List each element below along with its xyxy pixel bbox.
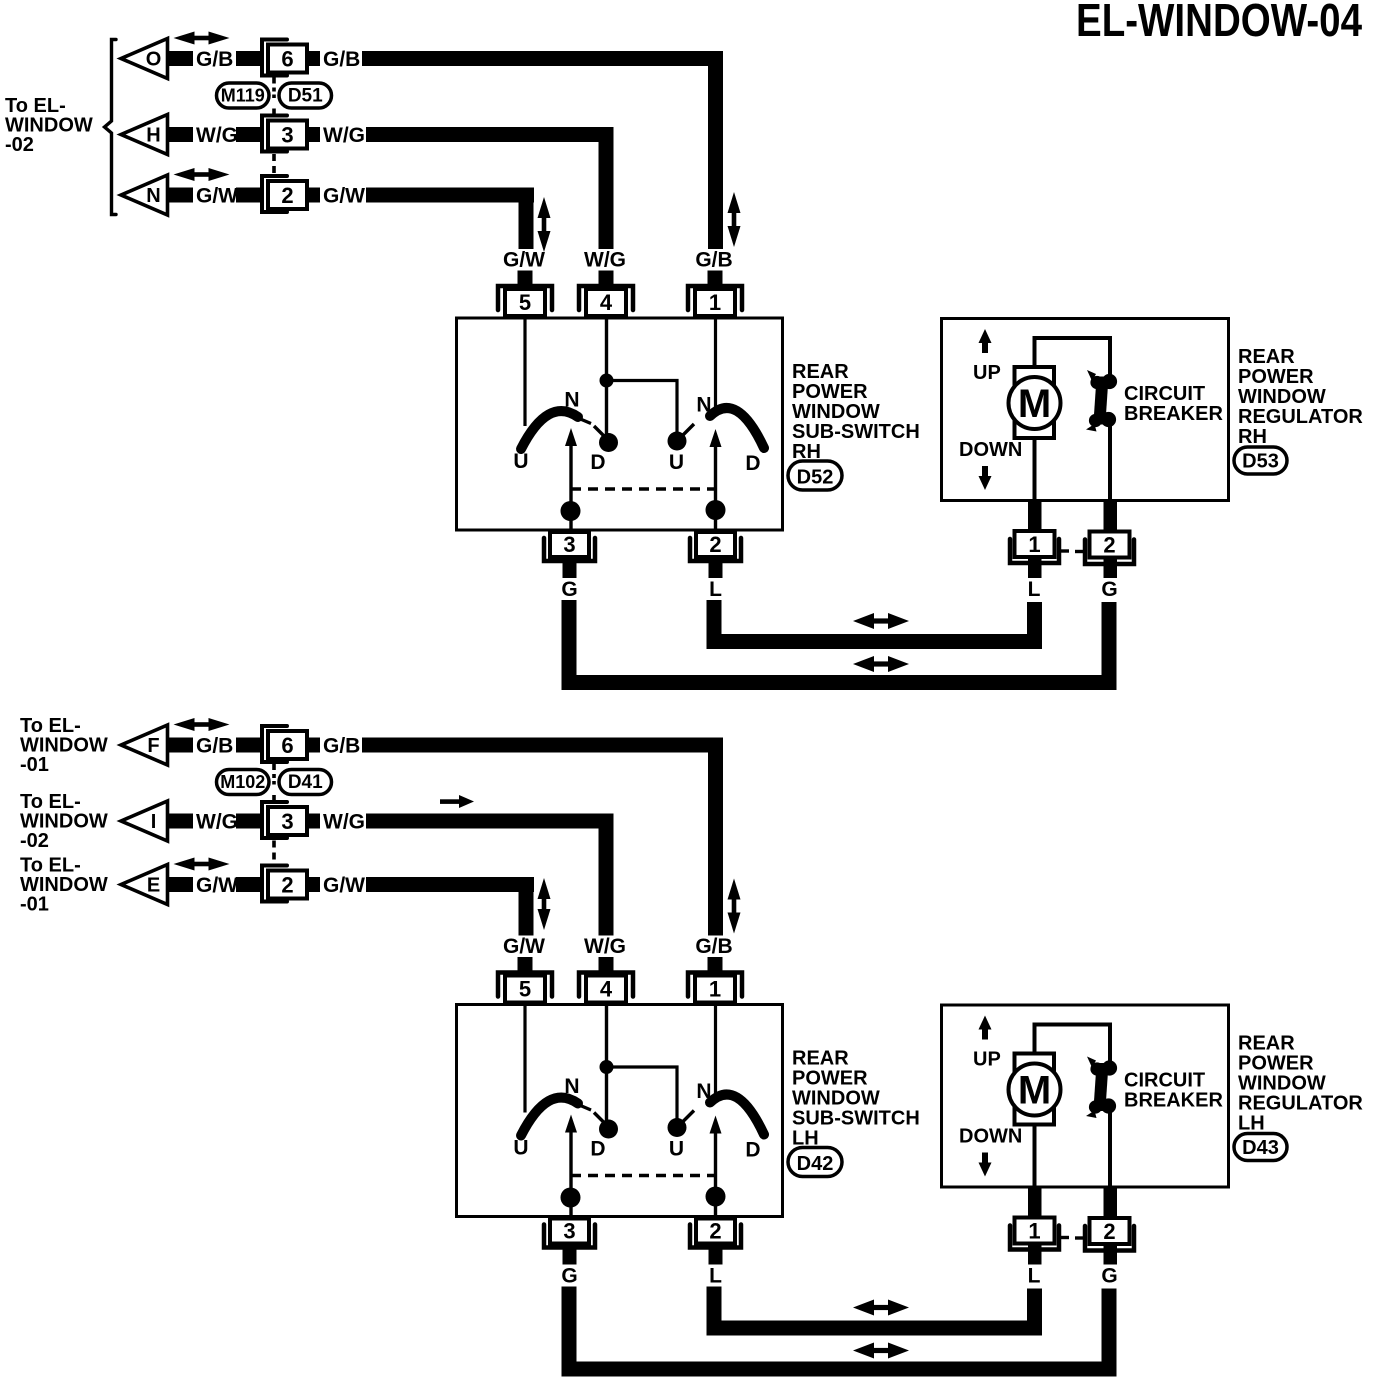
D contact dot left (sub-switch RH) <box>599 433 618 452</box>
svg-text:WINDOW: WINDOW <box>792 1088 880 1110</box>
wire breaker to pin 2 (regulator LH) <box>1108 1112 1112 1187</box>
label To EL-WINDOW-01 at row F <box>20 715 108 776</box>
connector pin box 3, row row H <box>268 121 307 149</box>
svg-text:-01: -01 <box>20 894 49 916</box>
wire from pin 1 (sub-switch LH) <box>714 1005 717 1100</box>
svg-text:POWER: POWER <box>792 381 868 403</box>
svg-text:REGULATOR: REGULATOR <box>1238 406 1363 428</box>
pin box 3 (sub-switch RH) <box>550 532 589 557</box>
svg-text:D51: D51 <box>288 86 323 107</box>
wire stub right of box 6, row row O <box>307 51 320 66</box>
svg-text:G/W: G/W <box>503 935 545 958</box>
wire stub left of G/W label, row row N <box>168 188 194 203</box>
svg-text:D: D <box>745 452 760 475</box>
pin box 2 (regulator RH) <box>1090 532 1130 558</box>
wire stub left of G/B label, row row O <box>168 51 194 66</box>
svg-text:2: 2 <box>709 1219 721 1244</box>
wire from pin 4 (sub-switch RH) <box>605 318 608 434</box>
long G/W wire row N vertical down to pin 5 <box>519 188 534 250</box>
svg-text:E: E <box>147 875 160 897</box>
wire from pin 1 (sub-switch RH) <box>714 318 717 413</box>
svg-text:G/B: G/B <box>196 48 233 71</box>
pin box 1 (regulator RH) <box>1015 531 1055 557</box>
svg-text:U: U <box>513 450 528 473</box>
mechanical link dashed line (sub-switch RH) <box>571 487 716 491</box>
svg-text:D: D <box>590 451 605 474</box>
right switch wiper arc (sub-switch RH) <box>710 408 764 448</box>
svg-text:G/W: G/W <box>196 185 238 208</box>
svg-text:LH: LH <box>1238 1113 1265 1135</box>
svg-text:D: D <box>590 1138 605 1161</box>
label REAR POWER WINDOW REGULATOR RH <box>1238 346 1363 448</box>
pin bracket 3 (sub-switch RH) <box>544 538 595 561</box>
connector triangle I (row2) <box>121 801 168 841</box>
svg-text:N: N <box>146 185 160 207</box>
svg-text:G/W: G/W <box>323 874 365 897</box>
wire motor top to circuit breaker (regulator LH) <box>1035 1025 1111 1062</box>
svg-text:G/W: G/W <box>323 185 365 208</box>
wire stub above pin 1 (LH) <box>708 957 723 972</box>
wire arrow to pin 3 (sub-switch LH) <box>569 1131 572 1218</box>
wire stub above pin 5 (RH) <box>518 271 533 286</box>
pin bracket 2 (regulator RH) <box>1085 540 1134 565</box>
label REAR POWER WINDOW SUB-SWITCH RH <box>792 361 920 463</box>
svg-text:CIRCUIT: CIRCUIT <box>1124 1070 1205 1092</box>
wire stub below pin 2 (sub-switch LH) <box>709 1244 723 1265</box>
DOWN arrow (regulator LH) <box>979 1163 992 1177</box>
pin box 1 (regulator LH) <box>1015 1218 1055 1244</box>
connector triangle E (row3) <box>121 865 168 905</box>
connector id oval M119 <box>217 83 270 108</box>
up arrow of left switch (sub-switch LH) <box>565 1115 577 1133</box>
svg-text:W/G: W/G <box>584 935 626 958</box>
double-headed arrow on L run (LH) <box>853 1300 874 1316</box>
motor M1 circle (regulator RH) <box>1009 377 1061 429</box>
wire stub above pin 1 (regulator LH) <box>1028 1187 1042 1218</box>
double-headed arrow on G run (RH) <box>853 656 874 672</box>
svg-text:RH: RH <box>1238 426 1267 448</box>
wire stub above pin 1 (RH) <box>708 271 723 286</box>
svg-text:G/B: G/B <box>323 48 360 71</box>
svg-text:D: D <box>745 1139 760 1162</box>
double-headed arrow on L run (RH) <box>853 613 874 629</box>
pin bracket 4 (RH) <box>579 286 633 310</box>
wire G bottom horizontal run (LH) <box>562 1362 1117 1377</box>
long W/G wire row I vertical down to pin 4 <box>599 814 614 936</box>
motor M1 circle (regulator LH) <box>1009 1064 1061 1116</box>
label REAR POWER WINDOW SUB-SWITCH LH <box>792 1048 920 1150</box>
svg-text:4: 4 <box>600 290 613 315</box>
pin box 3 (sub-switch LH) <box>550 1219 589 1244</box>
svg-text:D43: D43 <box>1242 1137 1279 1159</box>
svg-text:SUB-SWITCH: SUB-SWITCH <box>792 1108 920 1130</box>
wire L up to regulator pin 1 (RH) <box>1027 602 1042 649</box>
rear power window sub-switch LH box outline <box>457 1005 783 1217</box>
wire motor top to circuit breaker (regulator RH) <box>1035 338 1111 375</box>
svg-text:U: U <box>513 1137 528 1160</box>
double-headed vertical arrow beside G/W wire row E <box>538 878 551 899</box>
svg-text:W/G: W/G <box>323 124 365 147</box>
mating tick left of pin 2 (regulator LH) <box>1075 1236 1085 1239</box>
wire stub right of box 6, row row F <box>307 738 320 753</box>
wire stub right of G/W label, row row E <box>236 877 262 892</box>
rear power window regulator RH box outline <box>942 319 1229 501</box>
svg-text:CIRCUIT: CIRCUIT <box>1124 383 1205 405</box>
wire G bottom horizontal run (RH) <box>562 675 1117 690</box>
svg-text:SUB-SWITCH: SUB-SWITCH <box>792 421 920 443</box>
circuit breaker symbol (regulator RH) <box>1086 370 1117 432</box>
wire stub left of G/W label, row row E <box>168 877 194 892</box>
wire stub left of W/G label, row row I <box>168 814 194 829</box>
connector triangle F (row1) <box>121 725 168 765</box>
svg-text:W/G: W/G <box>196 811 238 834</box>
svg-text:DOWN: DOWN <box>959 439 1022 461</box>
connector pin box 2, row row N <box>268 181 307 209</box>
svg-text:G/B: G/B <box>196 735 233 758</box>
mechanical link dashed line (sub-switch LH) <box>571 1174 716 1178</box>
svg-text:1: 1 <box>1028 532 1040 557</box>
connector pin box 3, row row I <box>268 807 307 835</box>
svg-text:G: G <box>1101 1265 1117 1288</box>
connector bracket at box 3, row row H <box>262 116 287 152</box>
pin box 2 (sub-switch LH) <box>696 1219 735 1244</box>
pin bracket 2 (sub-switch RH) <box>690 538 741 561</box>
branch wire to U contact right (sub-switch LH) <box>607 1067 678 1119</box>
svg-text:G/B: G/B <box>323 735 360 758</box>
junction dot on pin 4 wire (sub-switch LH) <box>600 1060 614 1074</box>
dashed link between M102 and D41 <box>272 774 276 785</box>
svg-text:2: 2 <box>1103 1219 1115 1244</box>
wire stub right of G/W label, row row N <box>236 188 262 203</box>
wire motor to pin 1 (regulator LH) <box>1033 1123 1037 1187</box>
svg-text:POWER: POWER <box>1238 366 1314 388</box>
U contact tail right (sub-switch LH) <box>683 1111 694 1122</box>
svg-text:N: N <box>564 1075 579 1098</box>
svg-text:L: L <box>1028 1265 1041 1288</box>
wire stub below pin 1 (regulator LH) <box>1028 1244 1042 1265</box>
connector bracket at box 3, row row I <box>262 802 287 838</box>
long G/W wire row N horizontal <box>366 188 534 203</box>
label To EL-WINDOW-02 at row I <box>20 791 108 852</box>
svg-text:L: L <box>709 1265 722 1288</box>
pin bracket 4 (LH) <box>579 973 633 997</box>
svg-text:6: 6 <box>281 47 293 72</box>
pin bracket 2 (regulator LH) <box>1085 1226 1134 1251</box>
svg-text:5: 5 <box>519 290 531 315</box>
connector triangle O (row1) <box>121 39 168 79</box>
wire L up to regulator pin 1 (LH) <box>1027 1289 1042 1336</box>
connector pin box 6, row row O <box>268 45 307 73</box>
wire breaker to pin 2 (regulator RH) <box>1108 425 1112 500</box>
long W/G wire row H vertical down to pin 4 <box>599 127 614 249</box>
svg-text:POWER: POWER <box>1238 1053 1314 1075</box>
wire stub above pin 4 (LH) <box>599 957 614 972</box>
svg-text:L: L <box>709 578 722 601</box>
double-headed vertical arrow beside G/B wire row O <box>728 192 741 213</box>
wire arrow to pin 3 (sub-switch RH) <box>569 444 572 531</box>
connector bracket at box 6, row row F <box>262 726 287 762</box>
svg-text:2: 2 <box>709 532 721 557</box>
motor frame rectangle (regulator LH) <box>1015 1054 1055 1125</box>
junction dot left (sub-switch RH) <box>561 501 581 521</box>
svg-text:2: 2 <box>1103 533 1115 558</box>
wire stub left of W/G label, row row H <box>168 127 194 142</box>
label To EL-WINDOW-02 (top left) <box>5 95 93 156</box>
label To EL-WINDOW-01 at row E <box>20 855 108 916</box>
svg-text:1: 1 <box>709 977 721 1002</box>
svg-text:M102: M102 <box>220 772 265 792</box>
svg-text:3: 3 <box>563 1219 575 1244</box>
dashed link from ovals to box 3 <box>272 795 276 802</box>
svg-text:W/G: W/G <box>584 249 626 272</box>
wire from pin 5 to U contact (sub-switch RH) <box>523 318 526 426</box>
svg-text:-02: -02 <box>20 830 49 852</box>
connector id oval D42 <box>788 1148 842 1177</box>
U contact tail right (sub-switch RH) <box>683 424 694 435</box>
branch wire to U contact right (sub-switch RH) <box>607 381 678 433</box>
pin box 5 (LH) <box>505 976 545 1003</box>
dashed link below box 6 to M119/D51 <box>272 77 276 84</box>
svg-text:M: M <box>1018 382 1051 426</box>
wire stub right of G/B label, row row F <box>236 738 262 753</box>
wire stub below pin 2 (regulator LH) <box>1104 1245 1118 1265</box>
wire G from sub-switch pin 3 down (RH) <box>562 600 577 690</box>
label CIRCUIT BREAKER (regulator RH) <box>1124 383 1223 425</box>
DOWN arrow (regulator RH) <box>979 476 992 490</box>
svg-text:U: U <box>669 1138 684 1161</box>
svg-text:5: 5 <box>519 977 531 1002</box>
svg-text:F: F <box>147 735 159 757</box>
svg-text:6: 6 <box>281 733 293 758</box>
wire stub above pin 2 (regulator RH) <box>1104 500 1118 531</box>
connector id oval D52 <box>788 461 842 490</box>
motor frame rectangle (regulator RH) <box>1015 367 1055 438</box>
svg-text:WINDOW: WINDOW <box>792 401 880 423</box>
pin box 4 (LH) <box>586 976 626 1003</box>
wire stub right of box 2, row row E <box>307 877 320 892</box>
long G/W wire row E horizontal <box>366 877 534 892</box>
svg-text:1: 1 <box>1028 1219 1040 1244</box>
label REAR POWER WINDOW REGULATOR LH <box>1238 1033 1363 1135</box>
long G/B wire row O vertical down to pin 1 <box>708 51 723 249</box>
double-headed arrow above connector N <box>174 168 195 181</box>
double-headed arrow above connector E <box>174 858 195 871</box>
wire from pin 5 to U contact (sub-switch LH) <box>523 1005 526 1113</box>
svg-text:REAR: REAR <box>792 361 849 383</box>
long G/B wire row O horizontal <box>362 51 723 66</box>
svg-text:REAR: REAR <box>1238 346 1295 368</box>
pin bracket 1 (regulator RH) <box>1010 539 1059 563</box>
svg-text:BREAKER: BREAKER <box>1124 403 1223 425</box>
svg-text:M: M <box>1018 1069 1051 1113</box>
wire G up to regulator pin 2 (RH) <box>1102 602 1117 690</box>
svg-text:M119: M119 <box>221 86 265 106</box>
left switch wiper arc (sub-switch LH) <box>521 1098 578 1136</box>
pin bracket 5 (RH) <box>498 286 552 310</box>
U contact dot right (sub-switch LH) <box>668 1118 687 1137</box>
svg-text:UP: UP <box>973 1049 1001 1071</box>
svg-text:2: 2 <box>281 873 293 898</box>
wire stub above pin 5 (LH) <box>518 957 533 972</box>
svg-text:3: 3 <box>281 809 293 834</box>
up arrow of right switch (sub-switch LH) <box>710 1116 722 1134</box>
left wiper tail (sub-switch RH) <box>578 418 591 424</box>
svg-text:REGULATOR: REGULATOR <box>1238 1093 1363 1115</box>
svg-text:D41: D41 <box>288 772 323 793</box>
pin box 1 (LH) <box>695 976 735 1003</box>
UP arrow (regulator LH) <box>979 1016 992 1030</box>
svg-text:WINDOW: WINDOW <box>1238 386 1326 408</box>
wire stub above pin 2 (regulator LH) <box>1104 1187 1118 1218</box>
wire stub below pin 2 (sub-switch RH) <box>709 557 723 578</box>
wire stub right of box 3, row row H <box>307 127 320 142</box>
rear power window sub-switch RH box outline <box>457 318 783 530</box>
pin box 5 (RH) <box>505 289 545 316</box>
long G/W wire row E vertical down to pin 5 <box>519 877 534 936</box>
svg-text:L: L <box>1028 578 1041 601</box>
svg-text:POWER: POWER <box>792 1068 868 1090</box>
wire stub above pin 4 (RH) <box>599 271 614 286</box>
long G/B wire row F vertical down to pin 1 <box>708 738 723 936</box>
svg-text:G: G <box>1101 578 1117 601</box>
junction dot right (sub-switch RH) <box>706 500 726 520</box>
long W/G wire row H horizontal <box>366 127 614 142</box>
svg-text:REAR: REAR <box>1238 1033 1295 1055</box>
svg-text:G: G <box>561 1265 577 1288</box>
connector triangle N (row3) <box>121 175 168 215</box>
dashed link between M119 and D51 <box>272 88 276 99</box>
wire stub right of W/G label, row row H <box>236 127 262 142</box>
mating tick left of pin 2 (regulator RH) <box>1075 550 1085 553</box>
junction dot right (sub-switch LH) <box>706 1187 726 1207</box>
dashed link between box 3 and box 2 <box>272 154 276 176</box>
junction dot left (sub-switch LH) <box>561 1188 581 1208</box>
wire L horizontal run (LH) <box>707 1321 1043 1336</box>
svg-text:DOWN: DOWN <box>959 1126 1022 1148</box>
connector id oval D51 <box>279 83 332 108</box>
dashed link from ovals to box 3 <box>272 109 276 116</box>
connector bracket at box 6, row row O <box>262 40 287 76</box>
dashed link between box 3 and box 2 <box>272 841 276 863</box>
right arrow above W/G wire row I <box>459 795 474 808</box>
connector id oval D53 <box>1234 447 1287 474</box>
wire arrow to pin 2 (sub-switch LH) <box>714 1132 717 1218</box>
junction dot on pin 4 wire (sub-switch RH) <box>600 374 614 388</box>
svg-text:D53: D53 <box>1242 451 1279 473</box>
svg-text:D42: D42 <box>797 1153 834 1175</box>
wire stub below pin 3 (sub-switch RH) <box>563 557 577 578</box>
label CIRCUIT BREAKER (regulator LH) <box>1124 1070 1223 1112</box>
U contact dot right (sub-switch RH) <box>668 432 687 451</box>
svg-text:4: 4 <box>600 977 613 1002</box>
svg-text:-02: -02 <box>5 134 34 156</box>
up arrow of left switch (sub-switch RH) <box>565 428 577 446</box>
pin box 1 (RH) <box>695 289 735 316</box>
wire stub above pin 1 (regulator RH) <box>1028 500 1042 531</box>
connector id oval D41 <box>279 770 332 795</box>
wire stub right of box 2, row row N <box>307 188 320 203</box>
long G/B wire row F horizontal <box>362 738 723 753</box>
svg-text:REAR: REAR <box>792 1048 849 1070</box>
svg-text:BREAKER: BREAKER <box>1124 1090 1223 1112</box>
svg-text:I: I <box>151 811 157 833</box>
wire stub below pin 2 (regulator RH) <box>1104 558 1118 578</box>
double-headed vertical arrow beside G/B wire row F <box>728 879 741 900</box>
wire arrow to pin 2 (sub-switch RH) <box>714 445 717 531</box>
brace bracket for To EL-WINDOW-02 <box>105 40 117 215</box>
wire stub below pin 1 (regulator RH) <box>1028 557 1042 578</box>
double-headed arrow on G run (LH) <box>853 1343 874 1359</box>
pin bracket 1 (RH) <box>688 286 742 310</box>
mating tick right of pin 1 (regulator RH) <box>1059 549 1069 552</box>
svg-text:H: H <box>146 125 160 147</box>
D contact dot left (sub-switch LH) <box>599 1120 618 1139</box>
svg-text:U: U <box>669 451 684 474</box>
svg-text:W/G: W/G <box>323 811 365 834</box>
long W/G wire row I horizontal <box>366 814 614 829</box>
wire stub right of G/B label, row row O <box>236 51 262 66</box>
pin bracket 2 (sub-switch LH) <box>690 1225 741 1248</box>
connector pin box 6, row row F <box>268 731 307 759</box>
svg-text:3: 3 <box>281 123 293 148</box>
D contact tail left (sub-switch LH) <box>594 1113 605 1124</box>
left wiper tail (sub-switch LH) <box>578 1105 591 1111</box>
double-headed arrow above connector O <box>174 32 195 45</box>
right switch wiper arc (sub-switch LH) <box>710 1094 764 1134</box>
rear power window regulator LH box outline <box>942 1005 1229 1187</box>
svg-text:1: 1 <box>709 290 721 315</box>
wire L from sub-switch pin 2 down (RH) <box>707 600 722 649</box>
wire L from sub-switch pin 2 down (LH) <box>707 1287 722 1336</box>
up arrow of right switch (sub-switch RH) <box>710 429 722 447</box>
svg-text:WINDOW: WINDOW <box>1238 1073 1326 1095</box>
wire stub right of box 3, row row I <box>307 814 320 829</box>
connector bracket at box 2, row row N <box>262 176 287 212</box>
svg-text:G/W: G/W <box>503 249 545 272</box>
svg-text:O: O <box>146 49 162 71</box>
pin bracket 1 (LH) <box>688 973 742 997</box>
pin box 2 (sub-switch RH) <box>696 532 735 557</box>
connector triangle H (row2) <box>121 115 168 155</box>
connector id oval D43 <box>1234 1134 1287 1161</box>
mating tick right of pin 1 (regulator LH) <box>1059 1236 1069 1239</box>
wire G up to regulator pin 2 (LH) <box>1102 1289 1117 1377</box>
D contact tail left (sub-switch RH) <box>594 426 605 437</box>
pin box 4 (RH) <box>586 289 626 316</box>
wire stub right of W/G label, row row I <box>236 814 262 829</box>
pin box 2 (regulator LH) <box>1090 1218 1130 1244</box>
pin bracket 3 (sub-switch LH) <box>544 1225 595 1248</box>
double-headed vertical arrow beside G/W wire row N <box>538 197 551 218</box>
wire L horizontal run (RH) <box>707 634 1043 649</box>
connector bracket at box 2, row row E <box>262 866 287 902</box>
pin bracket 5 (LH) <box>498 973 552 997</box>
svg-text:EL-WINDOW-04: EL-WINDOW-04 <box>1076 0 1362 46</box>
dashed link below box 6 to M102/D41 <box>272 764 276 771</box>
svg-text:D52: D52 <box>797 467 834 489</box>
svg-text:3: 3 <box>563 532 575 557</box>
connector id oval M102 <box>217 770 270 795</box>
svg-text:G: G <box>561 578 577 601</box>
wire stub left of G/B label, row row F <box>168 738 194 753</box>
svg-text:W/G: W/G <box>196 124 238 147</box>
wire from pin 4 (sub-switch LH) <box>605 1005 608 1121</box>
double-headed arrow above connector F <box>174 718 195 731</box>
svg-text:2: 2 <box>281 183 293 208</box>
left switch wiper arc (sub-switch RH) <box>521 411 578 449</box>
circuit breaker symbol (regulator LH) <box>1086 1057 1117 1119</box>
wire G from sub-switch pin 3 down (LH) <box>562 1287 577 1377</box>
